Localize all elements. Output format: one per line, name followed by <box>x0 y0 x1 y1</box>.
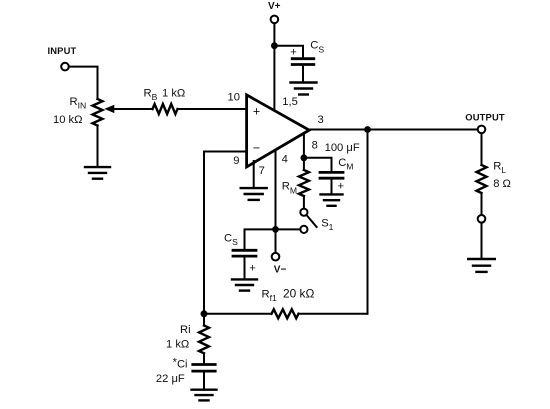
resistor RM <box>299 170 309 196</box>
svg-text:7: 7 <box>259 165 265 177</box>
ground under lower CS <box>232 278 257 280</box>
svg-text:22 μF: 22 μF <box>156 373 185 385</box>
junction V+ / CS <box>271 42 278 49</box>
svg-text:+: + <box>338 180 345 192</box>
wire pin 8 down <box>303 133 305 158</box>
wire junction to Ri <box>203 314 205 326</box>
resistor RIN potentiometer <box>93 99 103 126</box>
switch S1 bottom contact <box>300 226 307 233</box>
wire junction to lower CS <box>245 229 276 250</box>
ground under CS <box>291 81 317 83</box>
svg-text:10: 10 <box>228 91 240 103</box>
wire RB to op-amp pin 10 <box>178 108 247 110</box>
wire node to RM <box>303 158 305 170</box>
wire Ri to Ci <box>203 353 205 364</box>
wire feedback bottom right segment <box>299 313 368 315</box>
wire lower CS to ground <box>244 256 246 279</box>
wire CS to ground <box>302 65 304 83</box>
junction pin 4 / CS / S1 <box>272 226 279 233</box>
wiper arrow into RIN <box>104 105 114 113</box>
wire RL to lower terminal <box>481 193 483 215</box>
node V- terminal <box>272 253 280 261</box>
wire arrow to RB <box>112 108 153 110</box>
svg-text:+: + <box>290 47 297 59</box>
svg-text:1 kΩ: 1 kΩ <box>162 87 185 99</box>
wire OUTPUT to RL <box>481 133 483 165</box>
svg-text:100 μF: 100 μF <box>325 142 360 154</box>
wire S1 to pin 4 junction <box>276 228 301 230</box>
resistor RL <box>477 165 487 193</box>
svg-text:20 kΩ: 20 kΩ <box>283 286 314 300</box>
wire RIN to ground <box>97 126 99 168</box>
resistor Ri <box>199 326 209 354</box>
wire V+ to pin 1,5 <box>273 23 275 110</box>
wire pin 4 to V- <box>275 150 277 253</box>
op-amp U1 triangle <box>247 95 310 167</box>
capacitor Ci <box>193 363 215 366</box>
svg-text:8: 8 <box>312 140 318 152</box>
junction pin 8 node <box>301 154 308 161</box>
capacitor CM <box>320 171 343 174</box>
svg-text:4: 4 <box>282 154 288 166</box>
ground under Ci <box>192 389 217 391</box>
svg-text:V−: V− <box>274 264 287 275</box>
svg-text:8 Ω: 8 Ω <box>493 178 511 190</box>
wire pin 3 output to OUTPUT <box>309 129 478 131</box>
svg-text:3: 3 <box>318 114 324 126</box>
ground pin 7 <box>241 187 267 189</box>
svg-text:+: + <box>249 263 256 275</box>
wire Ci to ground <box>203 371 205 390</box>
svg-text:V+: V+ <box>268 1 281 12</box>
svg-text:1 kΩ: 1 kΩ <box>166 339 189 351</box>
junction output / feedback <box>364 126 371 133</box>
node OUTPUT terminal <box>478 126 486 134</box>
node V+ terminal <box>271 16 279 24</box>
wire pin 8 node to CM <box>304 158 332 173</box>
svg-text:Ri: Ri <box>180 324 191 336</box>
svg-text:OUTPUT: OUTPUT <box>465 112 505 123</box>
svg-text:+: + <box>253 105 260 119</box>
wire INPUT to RIN <box>69 67 98 99</box>
node RL lower terminal <box>478 215 486 223</box>
ground under RL <box>468 258 495 260</box>
svg-text:INPUT: INPUT <box>48 45 77 56</box>
wire RM to S1 <box>303 196 305 209</box>
wire feedback bottom left segment <box>204 313 272 315</box>
svg-text:−: − <box>253 141 260 155</box>
wire CM to ground <box>331 178 333 194</box>
wire feedback right leg <box>367 130 369 314</box>
wire pin 9 to feedback left leg <box>204 152 247 315</box>
resistor Rf1 <box>272 309 299 318</box>
capacitor CS (V- bypass) <box>233 249 256 252</box>
wire pin 7 to ground <box>253 161 255 188</box>
svg-text:10 kΩ: 10 kΩ <box>53 114 83 126</box>
junction Ri / feedback <box>201 310 208 317</box>
capacitor CS (V+ bypass) <box>292 57 314 60</box>
switch S1 blade <box>306 215 316 227</box>
wire terminal to ground <box>481 223 483 259</box>
switch S1 top contact <box>300 209 307 216</box>
ground under RIN <box>85 166 110 168</box>
svg-text:1,5: 1,5 <box>282 96 298 108</box>
node INPUT terminal <box>61 63 69 71</box>
wire junction to CS <box>274 46 303 59</box>
resistor RB <box>153 104 178 114</box>
svg-text:9: 9 <box>233 155 239 167</box>
ground under CM <box>321 193 343 195</box>
